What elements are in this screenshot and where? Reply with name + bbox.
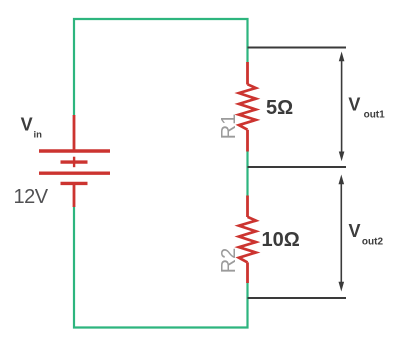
svg-text:12V: 12V	[14, 186, 49, 208]
svg-text:out1: out1	[364, 110, 386, 121]
svg-text:10Ω: 10Ω	[262, 229, 300, 251]
svg-text:5Ω: 5Ω	[266, 97, 293, 119]
svg-text:R1: R1	[218, 114, 240, 140]
svg-text:R2: R2	[218, 248, 240, 274]
svg-text:V: V	[349, 221, 361, 241]
svg-text:in: in	[34, 130, 43, 141]
svg-text:V: V	[21, 115, 33, 135]
svg-text:V: V	[348, 95, 360, 115]
svg-text:out2: out2	[362, 237, 384, 248]
